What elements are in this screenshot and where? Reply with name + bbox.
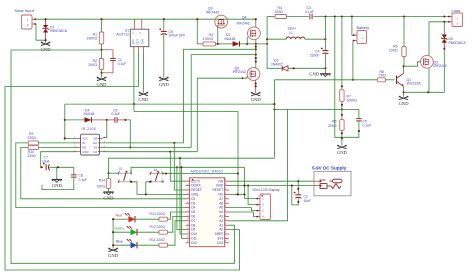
svg-text:20KΩ: 20KΩ (88, 63, 97, 67)
svg-text:GND: GND (52, 183, 63, 188)
svg-text:S2: S2 (154, 168, 158, 172)
wire (21, 147, 186, 198)
wire (109, 172, 119, 174)
svg-text:1N4007: 1N4007 (271, 62, 283, 66)
svg-text:16: 16 (225, 240, 227, 242)
svg-text:D5: D5 (191, 210, 195, 214)
svg-text:P6KE36CA: P6KE36CA (50, 29, 68, 33)
svg-text:27: 27 (225, 192, 227, 194)
svg-text:GND: GND (138, 97, 149, 102)
svg-text:5: 5 (187, 197, 189, 198)
wire (131, 167, 244, 173)
wire (103, 55, 192, 148)
wire (191, 54, 256, 56)
wire (168, 216, 187, 232)
wire (146, 182, 186, 195)
svg-text:100uF 50V: 100uF 50V (169, 34, 186, 38)
svg-text:D4: D4 (191, 206, 195, 210)
svg-text:D7: D7 (191, 219, 195, 223)
wire (103, 49, 184, 143)
wire (103, 151, 198, 153)
svg-text:15: 15 (187, 240, 189, 242)
wire (274, 108, 359, 110)
wire (352, 41, 354, 80)
diode D5 P6KE36CA (443, 22, 445, 35)
resistor R2 20K (101, 50, 103, 59)
svg-text:20: 20 (225, 222, 227, 224)
svg-text:20KΩ: 20KΩ (328, 124, 337, 128)
wire (229, 109, 288, 220)
wire (65, 103, 275, 105)
wire (39, 146, 77, 148)
ground (403, 92, 405, 96)
wire (50, 166, 74, 168)
wire (273, 80, 275, 158)
svg-text:10uF: 10uF (42, 159, 50, 163)
wire (428, 22, 430, 56)
wire (217, 25, 219, 44)
svg-text:IRFZ44Z: IRFZ44Z (434, 64, 447, 68)
svg-text:VCC: VCC (82, 137, 88, 141)
wire (216, 43, 227, 45)
svg-text:L1: L1 (289, 31, 293, 35)
svg-text:0.1uF: 0.1uF (363, 124, 372, 128)
svg-text:D2: D2 (191, 197, 195, 201)
transistor Q1 2N2222A (396, 76, 398, 84)
ground (41, 43, 50, 46)
wire (352, 17, 353, 36)
svg-text:GND: GND (41, 47, 52, 52)
svg-text:2: 2 (187, 184, 189, 185)
svg-text:IRFZ44Z: IRFZ44Z (237, 21, 250, 25)
wire (42, 177, 74, 189)
svg-text:GND: GND (399, 101, 410, 106)
ground (324, 68, 326, 73)
svg-text:A0: A0 (219, 228, 223, 232)
svg-text:Red: Red (116, 213, 122, 217)
svg-text:5-9V DC Supply: 5-9V DC Supply (312, 166, 347, 171)
wire (65, 104, 77, 138)
svg-text:19: 19 (225, 227, 227, 229)
wire (229, 185, 314, 187)
wire (11, 50, 234, 263)
svg-text:Solar Input: Solar Input (15, 8, 35, 13)
wire (174, 143, 186, 190)
svg-text:GND: GND (309, 72, 320, 77)
svg-text:470KΩ: 470KΩ (203, 37, 214, 41)
resistor R7 100K (341, 17, 343, 90)
wire (168, 221, 187, 245)
svg-text:VB: VB (93, 137, 97, 141)
wire (229, 212, 256, 217)
svg-text:GND: GND (216, 184, 224, 188)
svg-text:GND: GND (337, 150, 348, 155)
svg-text:VIN: VIN (218, 179, 224, 183)
wire (229, 180, 314, 182)
ground (103, 191, 113, 193)
wire (126, 120, 131, 147)
svg-text:AREF: AREF (215, 232, 224, 236)
wire (101, 44, 103, 50)
svg-text:2N2222A: 2N2222A (407, 82, 422, 86)
svg-text:3: 3 (187, 188, 189, 189)
wire (246, 37, 248, 44)
wire (255, 80, 257, 92)
svg-text:14: 14 (187, 236, 189, 238)
svg-text:R11 220Ω: R11 220Ω (150, 238, 166, 242)
wire (109, 158, 275, 173)
svg-text:ARDUINO_NANO: ARDUINO_NANO (191, 170, 224, 174)
svg-text:1: 1 (187, 180, 189, 181)
svg-text:R13 220Ω: R13 220Ω (150, 212, 166, 216)
wire (134, 110, 238, 112)
svg-text:COM: COM (82, 150, 89, 154)
svg-text:R14: R14 (99, 179, 105, 183)
wire (11, 49, 101, 51)
svg-text:R12 220Ω: R12 220Ω (150, 225, 166, 229)
svg-text:ACS712: ACS712 (116, 32, 129, 36)
svg-text:OUT: OUT (136, 39, 139, 45)
wire (41, 152, 77, 168)
wire (16, 143, 186, 208)
wire (180, 158, 186, 234)
svg-text:10uF: 10uF (304, 199, 312, 203)
capacitor C9 100uF 50V (163, 18, 165, 20)
wire (177, 167, 186, 229)
transistor Q2 IRFZ44Z (421, 55, 434, 68)
svg-text:D13: D13 (217, 241, 223, 245)
svg-text:D6: D6 (191, 215, 195, 219)
wire (142, 50, 144, 93)
wire (287, 16, 309, 18)
svg-text:D8: D8 (191, 223, 195, 227)
svg-text:20x4 LCD Display: 20x4 LCD Display (253, 188, 280, 192)
svg-text:220Ω: 220Ω (28, 136, 37, 140)
wire (274, 79, 377, 81)
svg-text:100KΩ: 100KΩ (347, 99, 358, 103)
resistor R10 220 (28, 145, 38, 149)
ground (159, 78, 168, 81)
wire (229, 208, 256, 211)
svg-text:VCC: VCC (132, 39, 135, 44)
svg-text:9: 9 (187, 215, 189, 216)
svg-text:P6KE36CA: P6KE36CA (449, 41, 467, 45)
wire (245, 167, 257, 198)
svg-text:RESET: RESET (212, 188, 223, 192)
wire (267, 17, 281, 69)
svg-text:7KΩ: 7KΩ (379, 74, 386, 78)
ground (337, 146, 346, 149)
svg-text:23: 23 (225, 209, 227, 211)
wire (170, 152, 186, 182)
svg-text:6: 6 (187, 202, 189, 203)
svg-text:10KΩ: 10KΩ (389, 49, 398, 53)
ground (251, 93, 260, 96)
svg-text:4: 4 (187, 193, 189, 194)
svg-text:S1: S1 (119, 166, 123, 170)
svg-text:100KΩ: 100KΩ (87, 36, 98, 40)
diode D1 P6KE36CA (45, 19, 47, 25)
svg-text:11: 11 (187, 223, 189, 225)
svg-text:D0/RX: D0/RX (191, 184, 201, 188)
svg-text:A3: A3 (219, 215, 223, 219)
wire (255, 19, 257, 27)
svg-text:A4: A4 (219, 210, 223, 214)
svg-text:29: 29 (225, 183, 227, 185)
svg-text:26: 26 (225, 196, 227, 198)
resistor R6 20K (341, 109, 343, 119)
svg-text:IN4148: IN4148 (225, 37, 236, 41)
wire (181, 167, 186, 238)
wire (403, 86, 405, 92)
wire (183, 48, 255, 50)
wire (428, 68, 430, 92)
svg-text:10KΩ: 10KΩ (96, 185, 105, 189)
svg-text:D10: D10 (191, 232, 197, 236)
svg-text:28: 28 (225, 187, 227, 189)
op-amp U1 ACS712 current sensor (130, 29, 149, 47)
svg-text:A6: A6 (219, 201, 223, 205)
svg-text:0.1uF: 0.1uF (112, 112, 121, 116)
svg-text:7: 7 (187, 206, 189, 207)
wire (404, 91, 445, 93)
svg-text:GND: GND (141, 39, 144, 45)
ground (101, 73, 103, 78)
svg-text:10: 10 (187, 218, 189, 220)
wire (163, 173, 238, 175)
ground (56, 167, 58, 179)
wire (429, 21, 448, 23)
svg-text:Battery: Battery (357, 25, 370, 30)
svg-text:D12: D12 (191, 241, 197, 245)
capacitor C4 220uF (324, 17, 326, 51)
svg-text:220Ω: 220Ω (275, 10, 284, 14)
svg-text:A1: A1 (219, 223, 223, 227)
capacitor C5 0.1uF (358, 109, 360, 118)
svg-text:0.1uF: 0.1uF (118, 62, 127, 66)
resistor R1 100K (100, 18, 102, 20)
wire (197, 77, 247, 152)
svg-text:30: 30 (225, 178, 227, 180)
wire (403, 66, 405, 73)
svg-text:+5V: +5V (217, 193, 224, 197)
svg-text:IN4148: IN4148 (84, 112, 95, 116)
wire (103, 120, 107, 138)
svg-text:RESET: RESET (191, 188, 202, 192)
svg-text:D11: D11 (191, 237, 197, 241)
svg-text:D9: D9 (191, 228, 195, 232)
ground (109, 249, 118, 252)
svg-text:24: 24 (225, 205, 227, 207)
svg-text:IR-2104: IR-2104 (82, 127, 97, 131)
wire (131, 182, 146, 195)
wire (335, 17, 342, 138)
svg-text:GND: GND (108, 253, 119, 258)
svg-text:Green: Green (115, 226, 125, 230)
svg-text:A7: A7 (219, 197, 223, 201)
svg-text:220uF: 220uF (310, 54, 320, 58)
svg-text:Blue: Blue (116, 239, 123, 243)
svg-text:IRFZ44Z: IRFZ44Z (206, 10, 219, 14)
svg-text:A5: A5 (219, 206, 223, 210)
svg-text:IN: IN (82, 141, 85, 145)
svg-text:Load: Load (452, 8, 461, 13)
svg-text:22: 22 (225, 214, 227, 216)
wire (133, 50, 135, 111)
svg-text:18: 18 (225, 231, 227, 233)
wire (404, 62, 421, 66)
svg-text:0.1uF: 0.1uF (79, 178, 88, 182)
wire (36, 24, 46, 40)
wire (255, 40, 257, 68)
wire (168, 212, 187, 219)
svg-text:IRFZ44Z: IRFZ44Z (233, 70, 246, 74)
wire (313, 16, 448, 18)
wire (248, 186, 256, 205)
svg-text:0.1uF: 0.1uF (305, 10, 314, 14)
wire (39, 142, 77, 144)
capacitor C1 0.1uF (102, 50, 114, 59)
wire (237, 111, 239, 194)
svg-text:17: 17 (225, 236, 227, 238)
svg-text:3V3: 3V3 (217, 237, 223, 241)
svg-text:13: 13 (187, 231, 189, 233)
svg-text:25: 25 (225, 200, 227, 202)
svg-text:8: 8 (187, 210, 189, 211)
svg-text:D3: D3 (191, 201, 195, 205)
wire (443, 49, 445, 93)
ground (139, 93, 148, 96)
svg-text:A2: A2 (219, 219, 223, 223)
wire (5, 50, 240, 270)
wire (229, 193, 245, 195)
resistor R3 470K (197, 19, 203, 44)
svg-text:GND: GND (159, 82, 170, 87)
wire (36, 18, 256, 20)
svg-text:GND: GND (191, 193, 199, 197)
svg-text:21: 21 (225, 218, 227, 220)
svg-text:GND: GND (251, 97, 262, 102)
svg-text:12: 12 (187, 227, 189, 229)
svg-text:220Ω: 220Ω (28, 154, 37, 158)
svg-text:GND: GND (104, 196, 115, 201)
svg-text:Q4: Q4 (242, 15, 247, 19)
wire (112, 219, 114, 248)
